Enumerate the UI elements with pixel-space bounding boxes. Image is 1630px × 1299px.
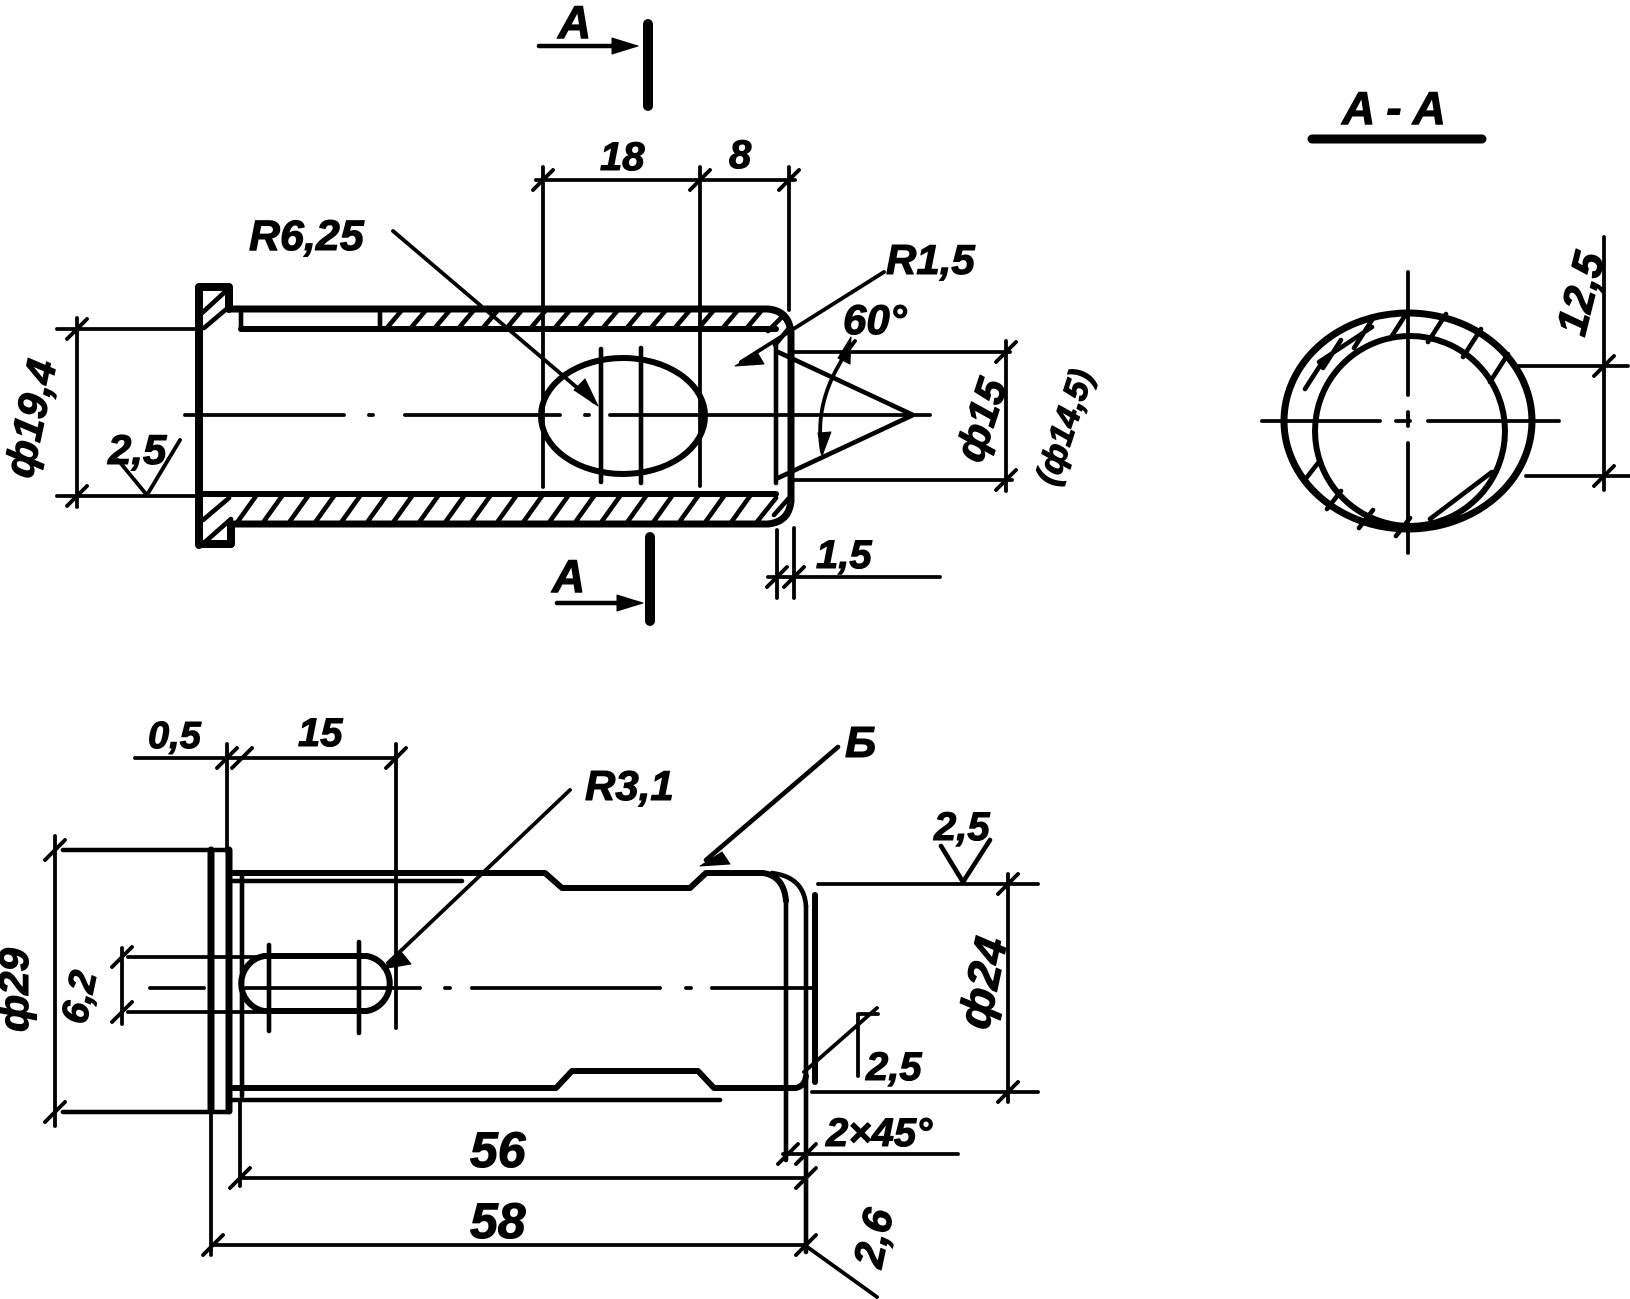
dim phi24 line: [1006, 874, 1010, 1102]
dim 6,2 line: [120, 948, 124, 1024]
centerline axis of bottom view: [150, 986, 815, 990]
svg-text:2,5: 2,5: [107, 426, 167, 473]
leader 2,5 wall thickness: [118, 440, 180, 495]
section title underline: [1312, 135, 1482, 144]
leader wall 2,5 mid: [804, 1008, 878, 1076]
svg-text:A: A: [551, 550, 585, 602]
leader B mark: [706, 747, 838, 860]
section plane mark A bottom: arrow: [557, 601, 635, 606]
hatch divider small vertical in top band: [241, 310, 380, 329]
dim 18/8 extension lines: [543, 167, 789, 487]
dim 12,5 ticks: [1594, 356, 1614, 486]
leader R6,25: [393, 231, 594, 402]
dim phi24 ticks: [998, 874, 1018, 1102]
dim 6,2 extension lines: [128, 957, 264, 1012]
ring outer circle: [1284, 313, 1532, 529]
dim 1,5 line: [768, 575, 940, 579]
dim 0,5 / 15 line: [135, 756, 396, 760]
dim phi15 ticks: [996, 342, 1016, 490]
flange outline left: [199, 287, 231, 545]
svg-text:A - A: A - A: [1341, 82, 1446, 134]
svg-text:1,5: 1,5: [816, 533, 872, 577]
dim 58 ticks: [203, 1235, 816, 1255]
tube bottom outer wall line: [231, 501, 791, 524]
section plane mark A bottom: thick bar: [645, 537, 655, 621]
svg-text:58: 58: [470, 1193, 526, 1249]
dim 18/8 slash ticks: [533, 170, 799, 190]
leader 2,6: [806, 1246, 877, 1297]
svg-text:8: 8: [729, 133, 752, 177]
svg-text:R3,1: R3,1: [585, 762, 674, 809]
svg-text:18: 18: [600, 135, 645, 179]
body top second line: [230, 879, 462, 884]
svg-text:2,5: 2,5: [933, 805, 990, 849]
ring hatch strokes: [1304, 311, 1508, 536]
dim 58 line: [213, 1243, 806, 1247]
dim phi19,4 line: [75, 318, 79, 507]
dim phi29 line: [53, 836, 57, 1126]
tube end wall outer vertical: [788, 333, 795, 501]
slot projection vertical lines: [601, 348, 641, 483]
svg-text:ф29: ф29: [0, 947, 37, 1032]
hatch flange top part: [202, 291, 230, 328]
dim 56 extension left: [238, 1100, 242, 1186]
leader R1,5: [741, 272, 884, 362]
60 degree countersink V lines: [778, 352, 913, 478]
dim phi15 line: [1004, 341, 1008, 491]
60 deg angle arc with arrows: [820, 341, 855, 452]
slot projection verticals bottom view: [269, 942, 359, 1033]
hatch top band: [386, 310, 790, 345]
ring inner circle: [1315, 336, 1505, 526]
body bottom edge with groove bump: [230, 1071, 806, 1088]
svg-text:15: 15: [298, 711, 343, 755]
dim ticks 0,5/15: [217, 748, 406, 768]
dim phi15 extension lines: [790, 352, 1012, 480]
ring crosshair horizontal: [1262, 419, 1559, 423]
body top edge with groove dip: [230, 873, 786, 901]
svg-text:R1,5: R1,5: [886, 236, 975, 283]
dim phi19,4 ticks: [67, 319, 87, 506]
dim 12,5 extension lines: [1518, 366, 1630, 476]
svg-text:0,5: 0,5: [148, 715, 202, 757]
finish mark 2,5 top right: [941, 840, 990, 882]
flange plate bottom view: [211, 850, 229, 1111]
svg-text:56: 56: [470, 1122, 527, 1178]
svg-text:A: A: [557, 0, 591, 48]
slot stadium bottom view: [241, 956, 389, 1011]
tube top inner wall line: [241, 326, 776, 332]
section plane mark A top: arrow: [539, 44, 630, 49]
hatch bottom band: [236, 496, 789, 524]
svg-text:Б: Б: [845, 718, 876, 767]
flange bottom edge + phi29 bottom extension: [63, 1110, 229, 1115]
hatch flange bottom part: [203, 498, 231, 542]
leader R3,1: [388, 790, 570, 963]
right extension verticals for 2x45,56,58: [786, 901, 806, 1252]
body end face vertical: [812, 895, 818, 1082]
svg-text:R6,25: R6,25: [249, 212, 365, 260]
dim 56 ticks: [230, 1168, 816, 1188]
dim 1,5 ticks: [767, 567, 804, 587]
dim phi24 extension lines: [812, 884, 1038, 1092]
tube end wall inner vertical: [774, 341, 779, 483]
svg-text:2,6: 2,6: [844, 1204, 902, 1272]
section plane mark A top: thick bar: [643, 24, 653, 106]
body outer corner curve right top: [772, 873, 806, 906]
svg-text:60°: 60°: [843, 296, 908, 343]
flange top edge + phi29 top extension: [63, 848, 230, 853]
oval slot in tube: [541, 358, 705, 474]
extension verticals for 0,5/15: [227, 744, 396, 1028]
svg-text:(ф14,5): (ф14,5): [1028, 365, 1101, 490]
body left face: [240, 875, 245, 1096]
dim 56 line: [240, 1176, 806, 1180]
dim phi29 ticks: [45, 840, 65, 1122]
dim phi19,4 extension lines: [57, 329, 196, 496]
svg-text:2,5: 2,5: [865, 1045, 922, 1089]
dim 2x45 ticks: [778, 1144, 816, 1164]
svg-text:2×45°: 2×45°: [825, 1111, 933, 1155]
dim 12,5 line: [1602, 237, 1606, 490]
dim 1,5 extension lines: [777, 528, 794, 598]
svg-text:ф19,4: ф19,4: [0, 355, 65, 481]
centerline axis of top view: [185, 413, 930, 417]
dim 6,2 ticks: [112, 947, 132, 1022]
tube top outer wall line: [229, 309, 791, 333]
svg-text:6,2: 6,2: [54, 967, 106, 1027]
dim 2x45 line: [783, 1152, 958, 1156]
tube bottom inner wall line: [203, 491, 776, 497]
body bottom second line: [230, 1098, 720, 1103]
dim 58 extension left: [209, 1111, 213, 1255]
dim 18/8 line: [536, 178, 795, 182]
ring crosshair vertical: [1406, 272, 1410, 553]
